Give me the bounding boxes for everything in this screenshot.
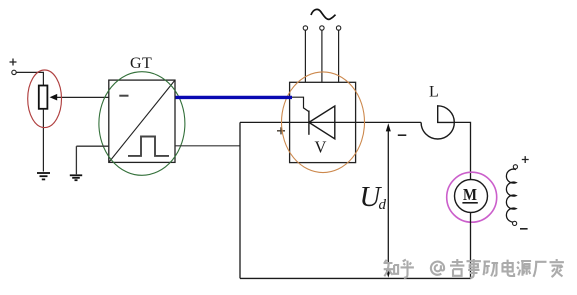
- node plus label (anode side): [277, 127, 285, 134]
- node minus label (cathode side): [398, 134, 407, 136]
- char li: [484, 262, 499, 277]
- orange highlight ellipse around thyristor: [282, 72, 365, 173]
- wire blue gate lead GT to thyristor: [176, 96, 293, 99]
- transistor V triangle: [309, 106, 335, 139]
- node three-phase terminals: [303, 26, 307, 30]
- motor M magenta highlight circle: [447, 172, 497, 222]
- red highlight ellipse around potentiometer: [28, 70, 62, 128]
- node GT minus marking: [119, 95, 128, 97]
- green highlight ellipse around GT: [99, 72, 185, 176]
- inductor L loop: [421, 106, 454, 139]
- char hu: [401, 260, 414, 278]
- wire GT lower output to node: [175, 145, 240, 147]
- wire vertical left branch: [239, 122, 241, 278]
- wire terminal to potentiometer top: [16, 72, 43, 85]
- wire wiper arrow from GT to potentiometer: [55, 96, 109, 98]
- motor M underline: [462, 202, 477, 204]
- ground (second, left of GT): [75, 146, 77, 174]
- wire L to motor corner: [454, 122, 470, 179]
- node field coil minus label: [520, 228, 528, 230]
- svg-text:GT: GT: [130, 55, 152, 72]
- char shi: [467, 259, 481, 278]
- resistor RP potentiometer body: [39, 86, 48, 109]
- ground (left, below potentiometer): [37, 173, 50, 179]
- node field coil plus label: [522, 156, 529, 163]
- char yuan: [517, 261, 531, 276]
- node GT pulse symbol: [128, 137, 169, 156]
- wire motor bottom down: [470, 212, 472, 278]
- motor M body circle: [455, 180, 488, 213]
- node input terminal circle: [12, 70, 16, 74]
- node field coil top terminal: [513, 165, 517, 169]
- watermark zhihu text: [384, 259, 564, 278]
- wire horizontal through thyristor redrawn inside box: [290, 121, 356, 123]
- char zhi: [384, 260, 399, 276]
- char chang: [534, 262, 547, 277]
- char at-sign: [431, 262, 444, 275]
- wire gate lead black part: [292, 97, 309, 111]
- transistor V cathode bar: [308, 111, 310, 135]
- wire ground to GT left edge: [76, 145, 108, 147]
- wire potentiometer bottom to ground: [42, 109, 44, 172]
- wire anode horizontal: [240, 121, 421, 123]
- transistor V thyristor box: [290, 82, 356, 162]
- wire bottom return: [240, 277, 471, 279]
- wire three-phase input lines: [305, 30, 338, 82]
- svg-text:L: L: [429, 84, 439, 101]
- node + terminal label (input plus): [10, 59, 17, 66]
- node Ud measuring arrow: [387, 126, 389, 274]
- wire GT diagonal: [109, 80, 175, 162]
- inductor field coil: [506, 169, 516, 222]
- svg-text:d: d: [379, 197, 387, 213]
- char ji: [450, 259, 464, 276]
- node AC source tilde: [311, 9, 336, 19]
- char dian: [503, 260, 515, 276]
- node field coil bottom terminal: [513, 221, 517, 225]
- op-amp U1 GT trigger box: [109, 80, 175, 162]
- svg-text:M: M: [463, 185, 477, 204]
- svg-text:V: V: [315, 137, 327, 156]
- char jia: [550, 259, 564, 277]
